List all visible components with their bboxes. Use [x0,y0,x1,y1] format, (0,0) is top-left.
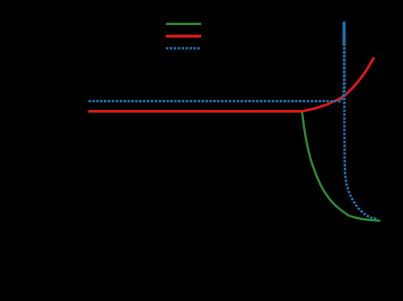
blue dashed spike solid cap [343,22,346,45]
legend blue dashed line [166,47,201,49]
legend red line [166,35,201,38]
green curve [88,112,380,221]
blue dashed curve rising branch [88,22,344,102]
red curve [88,58,374,112]
legend green line [166,23,201,25]
blue dashed curve descending branch [344,22,378,220]
